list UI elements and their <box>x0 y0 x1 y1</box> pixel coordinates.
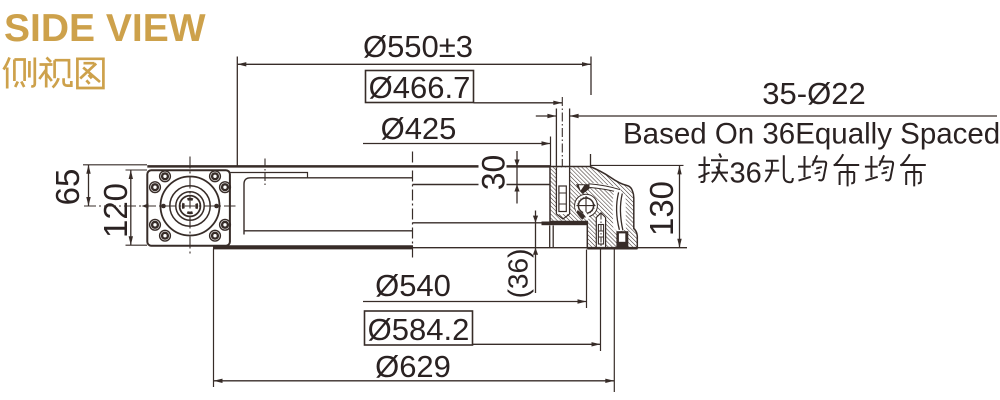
flange circle pilot <box>176 192 204 220</box>
glyph 侧 <box>4 58 35 89</box>
raceway channel white <box>588 183 621 193</box>
glyph 孔 <box>765 155 793 182</box>
housing bottom thick line <box>213 245 413 249</box>
note chinese 按36孔均布均布 <box>699 154 926 190</box>
dimension 65 <box>88 165 90 206</box>
dimension Ø540 line <box>363 301 587 303</box>
dimension box Ø466.7 <box>366 71 474 103</box>
dimension Ø466.7 leader <box>474 102 563 104</box>
glyph 布 <box>834 154 860 186</box>
svg-text:65: 65 <box>49 169 86 206</box>
seal arc 2 <box>620 194 622 231</box>
bearing ball <box>578 198 593 213</box>
slewing ring section: hatched body <box>550 167 637 249</box>
slewing axis centerline <box>412 152 414 261</box>
svg-text:35-Ø22: 35-Ø22 <box>762 76 865 111</box>
svg-text:Ø584.2: Ø584.2 <box>368 312 470 347</box>
dimension Ø629 line <box>214 380 615 382</box>
seal arc 1 <box>617 192 620 229</box>
svg-text:Ø425: Ø425 <box>381 111 457 146</box>
flange circle outer <box>161 177 220 236</box>
svg-text:SIDE VIEW: SIDE VIEW <box>4 7 206 50</box>
section bottom edge <box>587 247 637 250</box>
svg-text:30: 30 <box>476 155 512 191</box>
dimension 130 <box>591 164 684 166</box>
dimension Ø425 line <box>363 143 551 145</box>
dimension Ø550 line <box>237 57 591 167</box>
ring top line right of axis <box>413 184 551 186</box>
svg-text:Ø466.7: Ø466.7 <box>369 70 471 105</box>
dimension Ø584.2 line <box>473 343 601 345</box>
contact patch lower-left <box>576 210 585 220</box>
title chinese 侧视图 <box>4 58 104 89</box>
glyph 布 second <box>900 154 926 186</box>
flange vertical centerline <box>189 157 191 256</box>
glyph 视 <box>39 58 71 88</box>
cover step line <box>231 173 308 178</box>
contact patch upper-left <box>576 184 590 194</box>
housing top line <box>147 165 551 168</box>
dimension (36) <box>535 211 537 294</box>
dimension box Ø584.2 <box>365 311 473 345</box>
channel exit white strip <box>583 210 590 219</box>
dimension 120 <box>130 170 132 245</box>
hub dashed circle <box>183 199 197 213</box>
lower bolt centerline <box>600 214 602 249</box>
flange horizontal centerline <box>84 205 236 207</box>
upper bolt hole white slot <box>556 168 569 215</box>
svg-text:Ø540: Ø540 <box>375 268 451 303</box>
small solid arrow on centerline <box>142 204 149 209</box>
raceway channel edge lines <box>589 184 621 190</box>
raceway circle edge <box>575 194 598 217</box>
motor flange square <box>147 170 230 246</box>
svg-text:Ø629: Ø629 <box>375 349 451 384</box>
shaft hub circle <box>180 196 201 217</box>
glyph 按 <box>699 154 729 183</box>
bolt hole centerline <box>561 97 563 166</box>
glyph 均 second <box>865 155 893 180</box>
ball cross lines <box>577 205 596 207</box>
glyph 均 <box>798 155 826 180</box>
lower bolt thread rect <box>598 225 603 245</box>
upper bolt thread rect <box>559 186 566 212</box>
seal notch dark frame <box>616 231 628 248</box>
bearing ball white ring <box>576 196 596 216</box>
svg-text:130: 130 <box>643 181 680 236</box>
upper bolt hole bottom point <box>556 214 569 219</box>
housing right wall lines <box>549 225 551 247</box>
upper bolt hole edges <box>555 168 557 215</box>
bottom mounting face band <box>542 222 588 226</box>
svg-text:120: 120 <box>97 183 134 238</box>
flange circle mid <box>170 186 210 226</box>
glyph 图 <box>77 59 103 88</box>
dimension 35-Ø22 lines <box>536 109 997 167</box>
lower bolt hole white slot <box>596 218 605 249</box>
cover top line <box>244 178 413 235</box>
seal pocket white <box>613 191 626 232</box>
cover bottom line <box>244 230 413 232</box>
svg-text:(36): (36) <box>503 249 534 299</box>
top tapped hole centerline <box>264 159 266 187</box>
section dots on centerline <box>161 204 166 209</box>
ring bottom line right of axis <box>413 222 542 224</box>
seal notch white <box>619 233 625 241</box>
dimension 30 <box>516 151 518 204</box>
65 extension line <box>83 164 147 166</box>
white wedge lower-left <box>575 207 580 212</box>
svg-text:Ø550±3: Ø550±3 <box>363 29 473 64</box>
svg-text:36: 36 <box>730 158 762 190</box>
white wedge upper-left <box>579 185 585 190</box>
housing bottom thin line <box>413 247 687 249</box>
svg-text:Based On 36Equally Spaced: Based On 36Equally Spaced <box>623 118 1000 151</box>
lower bolt hole edges <box>596 213 605 218</box>
flange bolt holes <box>150 171 231 241</box>
